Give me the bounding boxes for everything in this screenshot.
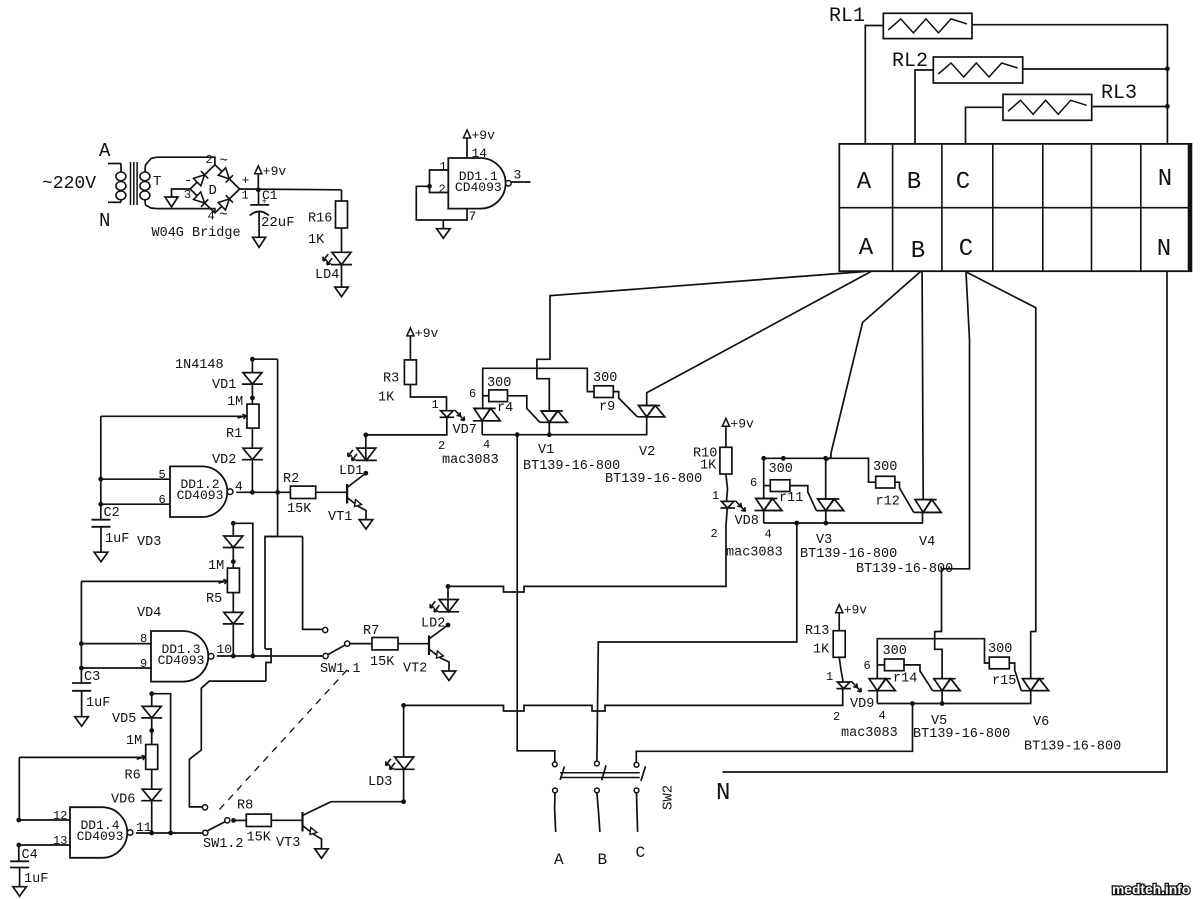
svg-text:CD4093: CD4093 [455, 180, 502, 195]
wire frame ch B [764, 458, 876, 485]
svg-text:~: ~ [220, 154, 228, 170]
diode VD1 [243, 373, 262, 385]
node bus B V3 [823, 521, 828, 526]
heater RL1 [883, 13, 972, 38]
switch SW2 contact C bottom [634, 788, 639, 793]
node +9v dot [256, 187, 261, 192]
wire DD1.2 output [236, 491, 290, 493]
terminal block [839, 144, 1191, 271]
resistor r9 300 [594, 386, 613, 398]
svg-text:r12: r12 [876, 495, 900, 510]
wire V3 MT1 [825, 511, 827, 523]
svg-text:300: 300 [487, 376, 511, 391]
svg-text:VD4: VD4 [137, 606, 161, 621]
wire VD7 pin4 [481, 421, 483, 435]
ground at C3 [75, 717, 89, 727]
transistor VT2 [428, 636, 430, 656]
wire SW1.1 to R7 [350, 643, 372, 645]
wire feedback ch1 vertical [277, 359, 279, 536]
transistor VT3 [301, 812, 303, 832]
node bus C drop [910, 701, 915, 706]
svg-text:VD5: VD5 [112, 712, 136, 727]
ground at DD1.1 [442, 220, 444, 229]
wire LD3 top [403, 705, 405, 757]
svg-text:r15: r15 [992, 674, 1016, 689]
resistor r15 300 [989, 657, 1009, 669]
wire LD1 top [365, 435, 367, 461]
resistor R3 [404, 360, 416, 385]
svg-text:+9v: +9v [415, 326, 439, 341]
wire chain2 top stub [232, 523, 234, 536]
wire SW2 B down [597, 793, 600, 832]
wire VD8 pin2 [726, 508, 727, 585]
svg-text:1: 1 [440, 160, 447, 174]
wire V1 MT1 [548, 422, 550, 434]
svg-text:R2: R2 [283, 472, 299, 487]
svg-text:VD9: VD9 [850, 697, 874, 712]
transformer T primary winding [116, 172, 126, 181]
wire DD1.4 output [136, 832, 203, 834]
bridge diode bottom-left [194, 192, 205, 203]
opto-triac VD8 output [756, 499, 772, 511]
wire R5 to VD4 [232, 593, 234, 613]
wire SW2 C down [637, 793, 638, 832]
potentiometer R6 [146, 745, 158, 770]
node bus A drop [515, 432, 520, 437]
svg-text:BT139-16-800: BT139-16-800 [605, 472, 702, 487]
wire pin8 [81, 643, 151, 645]
wire DD1.3 output [217, 655, 323, 657]
wire LD3 bottom [403, 769, 405, 802]
svg-text:VD8: VD8 [735, 514, 759, 529]
svg-text:12: 12 [53, 809, 67, 823]
svg-text:7: 7 [469, 209, 477, 224]
svg-text:V4: V4 [919, 535, 935, 550]
wire DD1.1 input tie [430, 170, 449, 193]
wire VD8 pin4 [763, 511, 765, 524]
svg-text:SW1.1: SW1.1 [320, 662, 361, 677]
svg-text:V2: V2 [639, 445, 655, 460]
wire bus A to SW2 [517, 435, 555, 762]
svg-text:300: 300 [988, 642, 1012, 657]
svg-text:A: A [857, 169, 872, 196]
node pin13 [16, 843, 21, 848]
svg-text:r11: r11 [779, 491, 803, 506]
svg-text:R8: R8 [237, 799, 253, 814]
wire r11 to V3 gate [790, 486, 817, 511]
svg-text:C3: C3 [84, 670, 100, 685]
transistor VT1 [346, 484, 348, 504]
svg-text:22uF: 22uF [261, 215, 295, 231]
opto-triac VD7 output [474, 408, 490, 420]
wire bridge minus lead [172, 189, 191, 197]
ground at C2 [94, 552, 108, 562]
svg-text:RL3: RL3 [1101, 82, 1137, 105]
svg-text:R6: R6 [125, 769, 141, 784]
diode VD2 [243, 448, 262, 460]
node LD2 top [446, 584, 451, 589]
ground at bridge minus [165, 197, 178, 207]
switch SW1.1 top contact [323, 627, 328, 632]
svg-text:1K: 1K [378, 391, 395, 406]
svg-text:+9v: +9v [844, 603, 868, 618]
wire frame ch A [483, 368, 594, 396]
svg-text:4: 4 [483, 438, 490, 452]
wire R13 to VD9 pin1 [839, 657, 843, 682]
resistor r11 300 [770, 480, 790, 492]
svg-text:N: N [99, 210, 110, 232]
wire RL1 right [972, 25, 1167, 144]
wire DD1.1 output [510, 181, 530, 183]
node VD6 output [149, 831, 154, 836]
node bus A V1 [547, 432, 552, 437]
triac V6 [1023, 679, 1039, 691]
svg-text:R13: R13 [805, 624, 829, 639]
node VD1-R1 [250, 396, 255, 401]
diode VD3 [224, 536, 243, 548]
wire R5 wiper [80, 581, 82, 668]
LED LD3 [395, 757, 414, 769]
svg-text:B: B [598, 851, 608, 869]
svg-text:1: 1 [826, 670, 833, 684]
node LD3 top [401, 703, 406, 708]
svg-text:mac3083: mac3083 [841, 726, 898, 741]
wire R2 to VT1 [316, 491, 347, 493]
svg-text:+9v: +9v [472, 128, 496, 143]
resistor R13 [833, 631, 845, 658]
svg-text:R3: R3 [383, 372, 399, 387]
node chain2 top [231, 521, 236, 526]
potentiometer R5 [227, 568, 239, 593]
svg-text:VD7: VD7 [453, 423, 477, 438]
wire pin9 [81, 667, 151, 669]
switch SW1.2 bottom contact [203, 830, 208, 835]
resistor R7 [372, 638, 398, 650]
wire VT3 collector to LD3 [331, 801, 404, 803]
wire secondary bottom to bridge [157, 209, 215, 213]
wire r9 to V2 gate [613, 392, 637, 417]
ground at VT3 [315, 849, 328, 859]
svg-text:1uF: 1uF [86, 696, 110, 711]
switch SW2 contact A bottom [553, 788, 558, 793]
wire VD7 pin6 [482, 396, 484, 409]
switch SW2 contact B top [595, 761, 600, 766]
svg-text:C2: C2 [104, 506, 120, 521]
node LD1 top [363, 433, 368, 438]
node feedback output [275, 490, 280, 495]
wire phase B to V3 (MT2) [826, 271, 921, 499]
svg-text:4: 4 [879, 709, 886, 723]
svg-text:W04G Bridge: W04G Bridge [152, 226, 241, 241]
ground at VT2 [442, 671, 456, 681]
resistor R10 [720, 447, 732, 474]
op-amp gate DD1.3 [151, 631, 208, 682]
svg-text:C1: C1 [262, 188, 278, 203]
node frame B left [761, 456, 766, 461]
switch SW1.2 top contact [202, 805, 207, 810]
svg-text:A: A [99, 140, 111, 162]
wire N return [723, 271, 1168, 772]
wire pin5 [101, 478, 170, 480]
node LD3 bottom [401, 799, 406, 804]
svg-text:mac3083: mac3083 [726, 546, 783, 561]
svg-text:BT139-16-800: BT139-16-800 [1024, 740, 1121, 755]
node frame B mid [781, 456, 786, 461]
wire r12 to V4 gate [895, 482, 914, 512]
+9v arrow at R13 [836, 605, 843, 613]
wire RL2 left [915, 70, 933, 144]
op-amp gate DD1.1 [448, 158, 505, 209]
svg-text:1: 1 [432, 398, 439, 412]
op-amp gate DD1.2 [170, 466, 227, 517]
switch SW1.1 bottom contact [323, 653, 328, 658]
switch SW2 contact B bottom [595, 788, 600, 793]
svg-text:6: 6 [750, 476, 757, 490]
svg-text:9: 9 [140, 657, 147, 671]
svg-text:R16: R16 [308, 212, 332, 227]
wire chain2 top link [233, 523, 253, 656]
svg-text:1: 1 [242, 189, 249, 203]
wire ch1 output to SW1.1 [265, 537, 278, 650]
svg-text:C: C [636, 844, 646, 862]
opto-LED VD9 [837, 682, 850, 689]
svg-text:A: A [554, 851, 564, 869]
triac V4 [915, 500, 931, 513]
wire R6 wiper [18, 757, 20, 820]
node VD3-R5 [231, 559, 236, 564]
wire LD3 to VD9 pin2 [404, 689, 843, 711]
svg-text:R1: R1 [226, 427, 242, 442]
resistor R2 [290, 486, 315, 498]
svg-text:r9: r9 [599, 400, 615, 415]
svg-text:10: 10 [217, 642, 233, 657]
node pin6 [98, 502, 103, 507]
svg-text:V1: V1 [538, 443, 554, 458]
svg-text:+: + [242, 173, 250, 188]
transformer T core [130, 162, 132, 205]
wire phase B to V4 (MT2) [922, 271, 923, 499]
switch SW1.2 lever [208, 822, 226, 831]
wire frame ch C [877, 639, 989, 665]
svg-text:V6: V6 [1033, 715, 1049, 730]
wire r15 to V6 gate [1009, 663, 1021, 691]
svg-text:medteh.info: medteh.info [1112, 882, 1190, 897]
svg-text:B: B [911, 238, 925, 265]
ground at LD4 [335, 287, 348, 297]
wire RL3 right [1092, 106, 1168, 108]
svg-text:1: 1 [712, 489, 719, 503]
svg-text:+9v: +9v [263, 164, 287, 179]
svg-text:1uF: 1uF [24, 872, 48, 887]
svg-text:6: 6 [864, 659, 871, 673]
node bus B drop [794, 521, 799, 526]
bridge rectifier D outline [190, 165, 240, 213]
svg-text:1uF: 1uF [105, 532, 129, 547]
svg-text:15K: 15K [370, 655, 395, 670]
svg-text:1K: 1K [308, 233, 325, 248]
svg-text:N: N [1158, 166, 1172, 193]
wire LD4 to ground [341, 265, 343, 287]
svg-text:2: 2 [711, 527, 718, 541]
resistor R16 [336, 201, 348, 228]
+9v arrow at DD1.1 pin 14 [463, 130, 470, 138]
svg-text:VD6: VD6 [111, 793, 135, 808]
svg-text:LD3: LD3 [368, 775, 392, 790]
node VD4 output [231, 654, 236, 659]
wire VD9 pin4 [876, 691, 878, 704]
resistor R8 [246, 814, 271, 826]
wire bus C [877, 691, 1030, 704]
svg-text:RL1: RL1 [829, 5, 865, 28]
wire A lead [108, 163, 121, 165]
node frame B V3 [823, 456, 828, 461]
wire RL1 left [865, 26, 883, 144]
svg-text:V3: V3 [816, 533, 832, 548]
ground at C1 [253, 237, 266, 247]
wire secondary top to bridge [157, 157, 215, 165]
svg-text:R5: R5 [206, 592, 222, 607]
wire R10 to VD8 pin1 [726, 474, 728, 501]
wire R1 to VD2 [251, 428, 253, 448]
svg-text:r14: r14 [893, 672, 917, 687]
wire R8 to VT3 [271, 819, 302, 821]
svg-text:B: B [907, 169, 921, 196]
svg-text:1N4148: 1N4148 [175, 358, 224, 373]
svg-text:4: 4 [765, 528, 772, 542]
svg-text:BT139-16-800: BT139-16-800 [913, 727, 1010, 742]
wire N lead [108, 201, 121, 203]
svg-text:VT2: VT2 [403, 662, 427, 677]
node pin12 [16, 818, 21, 823]
opto-LED VD7 [441, 411, 454, 418]
node chain1 top [250, 357, 255, 362]
svg-text:VT1: VT1 [328, 510, 352, 525]
wire LD1 to VD7 pin2 [366, 417, 447, 435]
opto-triac VD9 output [869, 679, 885, 691]
wire chain3 top stub [151, 694, 153, 707]
svg-text:CD4093: CD4093 [177, 488, 224, 503]
wire RL3 left [966, 107, 1004, 144]
wire bus A [482, 417, 647, 435]
svg-text:BT139-16-800: BT139-16-800 [800, 547, 897, 562]
resistor r14 300 [885, 659, 905, 671]
wire SW2 A down [555, 793, 556, 832]
svg-text:C: C [956, 169, 970, 196]
heater RL2 [933, 57, 1022, 83]
svg-text:-: - [184, 173, 192, 189]
svg-text:~: ~ [219, 208, 227, 224]
wire VD4 to node10 [232, 624, 234, 656]
svg-text:300: 300 [883, 644, 907, 659]
wire LD2 to VD8 pin2 [448, 585, 726, 592]
bridge diode top-left [194, 175, 205, 186]
node chain2 link output [250, 654, 255, 659]
wire phase C to V6 (MT2) [967, 272, 1036, 679]
+9v arrow at C1 [255, 166, 262, 174]
wire V5 MT1 [941, 691, 943, 704]
svg-text:15K: 15K [287, 502, 312, 517]
switch SW2 gang bar [560, 772, 640, 774]
svg-text:13: 13 [53, 834, 67, 848]
wire ch1 output to SW1.2 [189, 681, 266, 807]
ground at C4 [13, 887, 27, 897]
svg-text:D: D [209, 183, 217, 199]
svg-text:BT139-16-800: BT139-16-800 [856, 562, 953, 577]
wire VD6 to node11 [151, 801, 153, 833]
wire r4 to V1 gate [508, 396, 540, 423]
wire bus C to SW2 [636, 704, 912, 763]
wire pin13 [19, 844, 70, 846]
switch SW2 lever A [560, 767, 564, 780]
svg-text:LD1: LD1 [339, 464, 363, 479]
wire VD8 pin6 [763, 486, 765, 499]
node DD1.1 inputs [427, 184, 432, 189]
LED LD1 [357, 448, 376, 460]
wire bridge plus to +9v node [240, 188, 342, 191]
svg-text:R7: R7 [363, 624, 379, 639]
svg-text:LD2: LD2 [421, 617, 445, 632]
wire to R16 [341, 190, 343, 201]
switch SW1.1 common contact [345, 641, 350, 646]
svg-text:SW2: SW2 [661, 785, 677, 810]
switch SW2 contact C top [634, 762, 639, 767]
op-amp gate DD1.4 [70, 807, 127, 858]
svg-text:VD2: VD2 [212, 453, 236, 468]
wire pin12 [19, 819, 70, 821]
switch SW1.1 lever [328, 645, 345, 654]
wire phase A to V1 (MT2) [537, 272, 865, 412]
wire VD9 pin6 [876, 665, 878, 679]
svg-text:6: 6 [469, 387, 476, 401]
wire phase A to V2 (MT2) [647, 272, 871, 406]
svg-text:300: 300 [593, 371, 617, 386]
ground at VT1 [359, 520, 373, 530]
svg-text:15K: 15K [247, 831, 272, 846]
svg-text:T: T [153, 174, 161, 190]
wire VD3 to R5 [232, 548, 234, 569]
node RL3 bus [1165, 104, 1170, 109]
svg-text:300: 300 [873, 460, 897, 475]
svg-text:CD4093: CD4093 [158, 653, 205, 668]
bridge diode top-right [218, 168, 229, 179]
svg-text:3: 3 [514, 168, 522, 183]
node bus C V5 [940, 701, 945, 706]
wire R16 to LD4 [341, 228, 343, 252]
svg-text:2: 2 [438, 439, 445, 453]
wire chain1 top to feedback [252, 358, 277, 360]
triac V3 [818, 499, 834, 511]
resistor r12 300 [876, 476, 895, 488]
node SW1.2 common [231, 818, 236, 823]
svg-text:1K: 1K [813, 643, 830, 658]
svg-text:VT3: VT3 [276, 836, 300, 851]
node chain3 link output [168, 831, 173, 836]
dashed link SW1.1-SW1.2 [219, 670, 347, 810]
svg-text:r4: r4 [497, 401, 513, 416]
switch SW2 lever C [641, 766, 646, 781]
svg-text:C4: C4 [22, 848, 38, 863]
wire R3 to VD7 pin1 [410, 385, 446, 411]
capacitor C3 [80, 668, 82, 683]
svg-text:2: 2 [206, 153, 213, 167]
svg-text:1M: 1M [227, 395, 243, 410]
node VD5-R6 [149, 728, 154, 733]
LED LD4 [332, 252, 351, 264]
svg-text:1M: 1M [126, 734, 142, 749]
node LD2 bottom [446, 623, 451, 628]
triac V1 [541, 411, 557, 422]
switch SW2 lever B [602, 765, 606, 780]
